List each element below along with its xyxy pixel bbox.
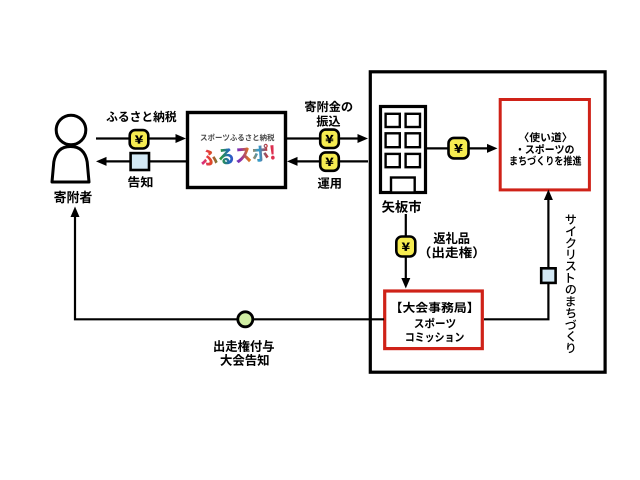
- outer frame yaita city: [370, 72, 605, 372]
- yen badge 3: [320, 152, 339, 170]
- label furusato nozei: [106, 111, 176, 123]
- wire jimukyoku right then up to red use box: [484, 197, 548, 319]
- label yaita-shi: [382, 200, 421, 213]
- arrow yen badge to red use box: [469, 147, 490, 149]
- label kifukin no furikomi: [305, 101, 352, 113]
- yen badge 4: [449, 138, 469, 159]
- yen badge 1: [130, 130, 149, 148]
- label kokuchi (notice): [128, 176, 152, 188]
- line building to yen badge 4: [427, 147, 450, 149]
- arrow furuspo box to frame: [287, 137, 360, 139]
- person donor icon: [52, 115, 89, 182]
- blue badge on cyclist wire: [541, 268, 555, 283]
- yen badge 5: [396, 237, 415, 257]
- red box usage (tsukaimichi): [500, 100, 589, 190]
- furuspo logo box: [188, 113, 286, 188]
- building yaita city hall: [381, 107, 426, 193]
- arrow frame to furuspo box: [296, 160, 369, 162]
- arrow furuspo box to donor: [105, 160, 187, 162]
- label henreihin (return gift): [434, 232, 470, 244]
- vertical label cyclist no machizukuri: [566, 214, 576, 224]
- vertical arrow building down to jimukyoku box: [405, 214, 407, 280]
- green node circle: [238, 312, 253, 327]
- label kifusha (donor): [54, 191, 91, 204]
- red box taikai jimukyoku sports commission: [385, 291, 483, 349]
- yen badge 2: [320, 130, 339, 148]
- blue badge kokuchi: [131, 153, 149, 170]
- arrow donor to furuspo box: [96, 137, 178, 139]
- label shussoken fuyo / taikai kokuchi: [214, 340, 274, 352]
- logo small text sports furusato nozei: [201, 134, 275, 142]
- wire jimukyoku left to donor with green node: [75, 213, 384, 319]
- label unyo (operation): [318, 177, 341, 188]
